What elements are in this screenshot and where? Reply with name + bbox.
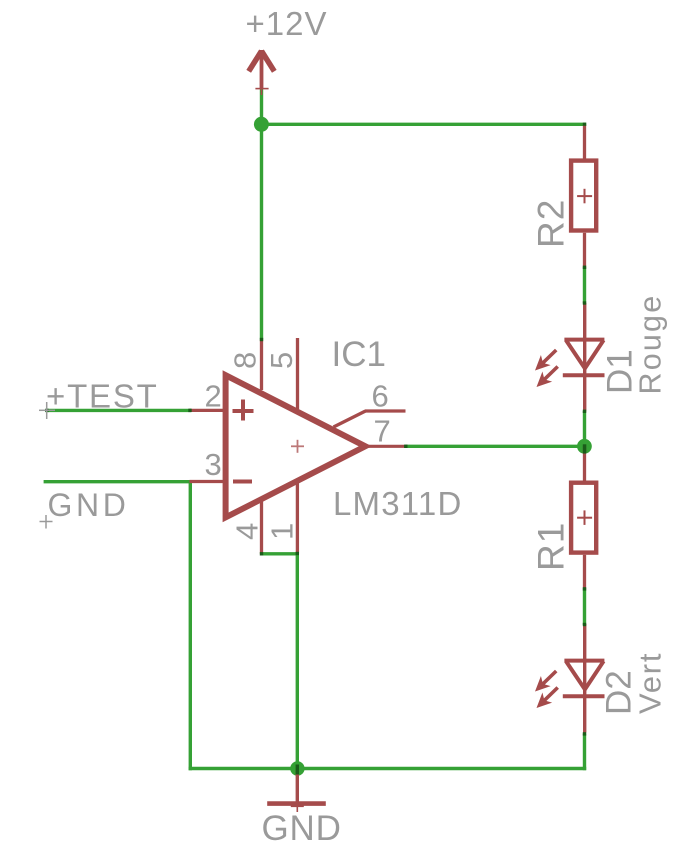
svg-text:7: 7 [374,414,391,449]
svg-text:IC1: IC1 [332,335,386,374]
svg-text:+TEST: +TEST [46,378,159,415]
svg-text:6: 6 [372,379,389,414]
svg-text:R1: R1 [531,522,572,571]
svg-text:Vert: Vert [633,652,668,714]
svg-text:LM311D: LM311D [333,485,462,522]
svg-text:GND: GND [262,809,342,848]
svg-text:GND: GND [48,487,130,523]
svg-text:2: 2 [205,379,222,414]
svg-text:1: 1 [265,523,300,540]
svg-text:8: 8 [228,352,263,369]
svg-text:Rouge: Rouge [634,294,668,395]
svg-text:+12V: +12V [246,5,328,42]
svg-text:R2: R2 [531,199,572,248]
svg-text:4: 4 [230,523,265,540]
svg-text:3: 3 [205,447,222,482]
svg-text:5: 5 [264,352,299,369]
